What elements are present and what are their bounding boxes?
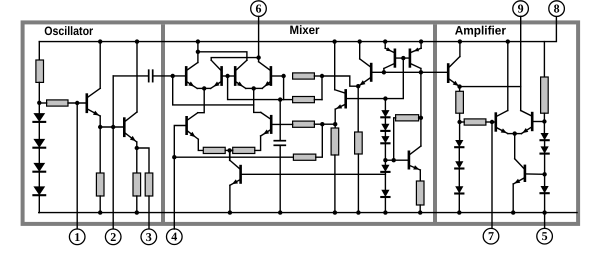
svg-text:1: 1 (74, 230, 80, 244)
svg-text:8: 8 (554, 2, 560, 16)
svg-text:5: 5 (542, 229, 548, 243)
svg-text:2: 2 (110, 230, 116, 244)
svg-text:4: 4 (171, 230, 177, 244)
svg-text:Mixer: Mixer (290, 23, 320, 37)
svg-text:3: 3 (146, 230, 152, 244)
svg-text:7: 7 (488, 229, 494, 243)
svg-text:Amplifier: Amplifier (455, 24, 507, 38)
svg-text:6: 6 (256, 2, 262, 16)
svg-text:9: 9 (518, 2, 524, 16)
svg-text:Oscillator: Oscillator (44, 24, 93, 38)
